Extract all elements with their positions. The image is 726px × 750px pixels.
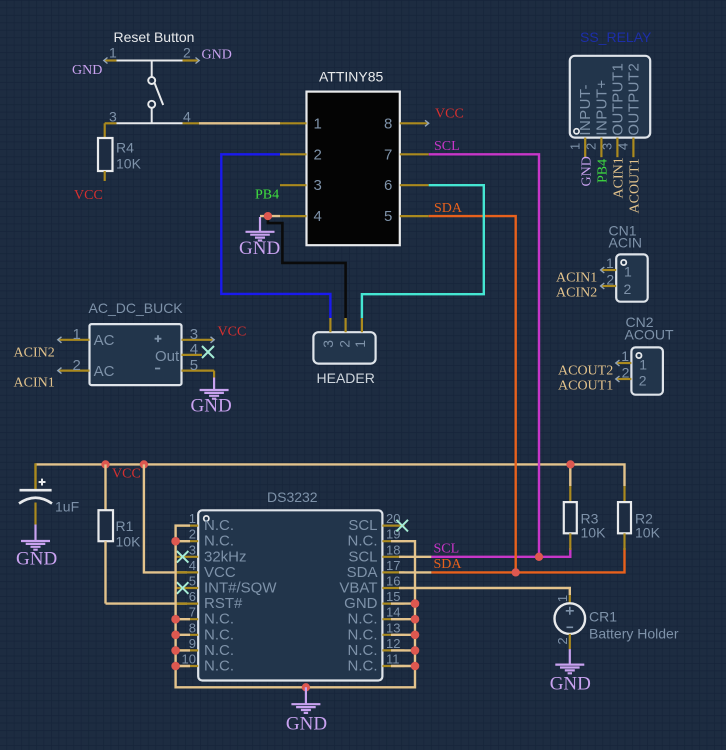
node VCC label on rail bbox=[112, 467, 141, 482]
U2 right pin names bbox=[339, 517, 377, 674]
CN2 pin stubs bbox=[616, 363, 632, 379]
svg-text:SDA: SDA bbox=[434, 201, 463, 216]
svg-text:ACOUT1: ACOUT1 bbox=[558, 379, 613, 394]
svg-text:SCL: SCL bbox=[348, 517, 377, 534]
svg-text:ACIN2: ACIN2 bbox=[14, 346, 55, 361]
junction dots on right bus bbox=[411, 599, 420, 670]
svg-text:16: 16 bbox=[386, 574, 400, 589]
svg-text:DS3232: DS3232 bbox=[267, 489, 318, 505]
wire end arrows bbox=[58, 58, 620, 383]
svg-text:PB4: PB4 bbox=[596, 159, 611, 183]
svg-text:1: 1 bbox=[189, 511, 196, 526]
svg-text:1uF: 1uF bbox=[55, 499, 79, 515]
svg-text:1: 1 bbox=[606, 255, 614, 271]
svg-text:AC: AC bbox=[94, 332, 115, 349]
U3 pin numbers bbox=[73, 326, 199, 374]
svg-text:VBAT: VBAT bbox=[339, 580, 377, 597]
node VCC label at U3 pin 3 bbox=[218, 325, 247, 340]
node SCL label at U2 bbox=[434, 542, 460, 557]
svg-text:GND: GND bbox=[202, 47, 232, 62]
node GND label at SW1 pin 2 bbox=[202, 47, 232, 62]
svg-text:SS_RELAY: SS_RELAY bbox=[580, 29, 652, 45]
ground GND under C1 bbox=[16, 525, 57, 570]
wire U3 pin5 to ground bbox=[213, 371, 215, 378]
junction on rail at R3 bbox=[566, 460, 574, 468]
U2 right pin stubs 11-20 bbox=[382, 526, 404, 666]
junction SDA bbox=[512, 568, 520, 576]
wire U1 pin2 to header pin3 (blue) bbox=[221, 154, 330, 318]
svg-text:1: 1 bbox=[109, 45, 117, 61]
wire SW1 pin4 to U1 pin1 bbox=[199, 122, 280, 124]
svg-text:N.C.: N.C. bbox=[204, 517, 234, 534]
wire VCC rail bbox=[36, 464, 625, 486]
resistor R3 10K bbox=[564, 486, 606, 550]
switch SW1 Reset Button bbox=[104, 29, 199, 124]
no-connect X on U3 pin 4 bbox=[202, 346, 214, 358]
svg-text:1: 1 bbox=[352, 340, 368, 348]
svg-text:2: 2 bbox=[73, 357, 81, 374]
svg-text:AC: AC bbox=[94, 363, 115, 380]
IC U2 DS3232 body bbox=[198, 489, 382, 681]
svg-text:N.C.: N.C. bbox=[348, 658, 378, 675]
node ACIN2 label at CN1 bbox=[556, 286, 597, 301]
resistor R2 10K bbox=[618, 486, 661, 550]
svg-text:R4: R4 bbox=[116, 140, 134, 156]
U1 right pin stubs 5-8 bbox=[400, 123, 429, 216]
svg-text:3: 3 bbox=[189, 542, 196, 557]
svg-text:10K: 10K bbox=[635, 525, 661, 541]
junction on rail at R1 bbox=[101, 460, 109, 468]
svg-text:4: 4 bbox=[183, 108, 191, 124]
svg-text:GND: GND bbox=[239, 238, 280, 259]
junction dots on left bus bbox=[171, 537, 180, 670]
svg-text:VCC: VCC bbox=[74, 188, 103, 203]
svg-text:1: 1 bbox=[555, 595, 570, 602]
svg-text:ACOUT2: ACOUT2 bbox=[558, 364, 613, 379]
svg-text:HEADER: HEADER bbox=[317, 370, 375, 386]
capacitor C1 1uF bbox=[19, 463, 79, 524]
svg-text:1: 1 bbox=[639, 357, 647, 373]
battery holder CR1 bbox=[555, 595, 679, 649]
svg-text:3: 3 bbox=[320, 340, 336, 348]
junction dot bottom bus bbox=[302, 683, 310, 691]
wire VBAT to CR1 bbox=[399, 588, 570, 595]
svg-text:6: 6 bbox=[384, 177, 392, 194]
svg-text:8: 8 bbox=[189, 620, 196, 635]
node PB4 label at U1 pin 3 bbox=[255, 188, 279, 203]
svg-text:VCC: VCC bbox=[435, 107, 464, 122]
svg-text:SDA: SDA bbox=[434, 557, 463, 572]
svg-text:5: 5 bbox=[384, 208, 392, 225]
svg-text:ACIN2: ACIN2 bbox=[556, 286, 597, 301]
K1 pin stubs 1-4 bbox=[585, 138, 633, 158]
svg-text:SCL: SCL bbox=[434, 542, 460, 557]
svg-text:SCL: SCL bbox=[348, 548, 377, 565]
svg-text:2: 2 bbox=[622, 365, 630, 381]
svg-text:10K: 10K bbox=[116, 534, 142, 550]
svg-text:N.C.: N.C. bbox=[348, 642, 378, 659]
svg-text:2: 2 bbox=[336, 340, 352, 348]
svg-text:15: 15 bbox=[386, 589, 400, 604]
U2 left pin numbers bbox=[182, 511, 196, 666]
module U3 AC_DC_BUCK body bbox=[89, 300, 184, 385]
svg-text:GND: GND bbox=[191, 396, 232, 417]
svg-text:8: 8 bbox=[384, 115, 392, 132]
svg-text:17: 17 bbox=[386, 558, 400, 573]
svg-text:ACIN: ACIN bbox=[609, 235, 642, 251]
no-connect X on U2 pin 3 bbox=[177, 551, 189, 563]
svg-text:PB4: PB4 bbox=[255, 188, 279, 203]
U2 right pin numbers bbox=[386, 511, 400, 666]
svg-text:1: 1 bbox=[621, 348, 629, 364]
connector J1 HEADER bbox=[313, 318, 375, 386]
svg-text:14: 14 bbox=[386, 605, 400, 620]
node ACOUT2 label at CN2 bbox=[558, 364, 613, 379]
wire rail to DS3232 pin4 VCC bbox=[144, 464, 187, 572]
svg-text:3: 3 bbox=[109, 108, 117, 124]
svg-text:2: 2 bbox=[624, 281, 632, 297]
svg-text:2: 2 bbox=[189, 527, 196, 542]
no-connect X on U2 pin 5 bbox=[177, 582, 189, 594]
wire net SCL (magenta) bbox=[399, 154, 570, 557]
svg-text:6: 6 bbox=[189, 589, 196, 604]
ground GND below U2 bbox=[286, 687, 327, 734]
svg-text:20: 20 bbox=[386, 511, 400, 526]
svg-text:N.C.: N.C. bbox=[204, 626, 234, 643]
svg-text:AC_DC_BUCK: AC_DC_BUCK bbox=[89, 300, 184, 316]
node ACIN1 label at U3 pin 2 bbox=[14, 376, 55, 391]
svg-text:N.C.: N.C. bbox=[348, 533, 378, 550]
svg-text:9: 9 bbox=[189, 636, 196, 651]
svg-text:N.C.: N.C. bbox=[204, 642, 234, 659]
svg-text:ACIN1: ACIN1 bbox=[556, 271, 597, 286]
node SDA label at U2 bbox=[434, 557, 463, 572]
svg-text:Out: Out bbox=[155, 348, 180, 365]
svg-text:5: 5 bbox=[189, 574, 196, 589]
ground GND under CR1 bbox=[550, 649, 591, 694]
svg-text:GND: GND bbox=[286, 714, 327, 735]
svg-text:2: 2 bbox=[314, 146, 322, 163]
svg-text:10K: 10K bbox=[116, 156, 142, 172]
svg-text:4: 4 bbox=[190, 341, 198, 358]
wire U1 pin6 to header pin1 (cyan) bbox=[362, 185, 484, 318]
wire right N.C. bus bbox=[306, 541, 415, 687]
svg-text:2: 2 bbox=[606, 272, 614, 288]
U2 left pin names bbox=[204, 517, 277, 674]
svg-text:GND: GND bbox=[344, 595, 378, 612]
svg-text:GND: GND bbox=[550, 674, 591, 695]
svg-text:4: 4 bbox=[189, 558, 196, 573]
node ACOUT1 label at CN2 bbox=[558, 379, 613, 394]
svg-text:1: 1 bbox=[568, 143, 583, 150]
resistor R4 10K bbox=[98, 138, 142, 181]
svg-text:ACOUT: ACOUT bbox=[625, 327, 674, 343]
U1 pin numbers bbox=[314, 115, 393, 225]
svg-text:12: 12 bbox=[386, 636, 400, 651]
U3 pin names bbox=[94, 332, 180, 380]
U3 left pin stubs 1-2 bbox=[58, 340, 90, 371]
svg-text:ACIN1: ACIN1 bbox=[612, 157, 627, 198]
svg-text:ACOUT1: ACOUT1 bbox=[628, 158, 643, 213]
svg-text:7: 7 bbox=[384, 146, 392, 163]
CN2 pin numbers bbox=[621, 348, 629, 381]
IC U1 ATTINY85 body bbox=[307, 69, 400, 246]
svg-text:ATTINY85: ATTINY85 bbox=[319, 69, 384, 85]
wire net SDA (orange) bbox=[399, 216, 625, 572]
svg-text:GND: GND bbox=[579, 156, 594, 186]
svg-text:RST#: RST# bbox=[204, 595, 243, 612]
junction SCL bbox=[535, 553, 543, 561]
node ACIN1 label at K1 pin3 rotated bbox=[612, 157, 627, 198]
svg-text:4: 4 bbox=[314, 208, 322, 225]
node VCC label under R4 bbox=[74, 188, 103, 203]
svg-text:INPUT+: INPUT+ bbox=[593, 79, 610, 135]
svg-text:N.C.: N.C. bbox=[204, 611, 234, 628]
wire U1 pin4 to header pin2 (black) bbox=[260, 216, 346, 318]
svg-text:2: 2 bbox=[183, 45, 191, 61]
svg-text:7: 7 bbox=[189, 605, 196, 620]
U1 left pin stubs 1-4 bbox=[280, 123, 307, 216]
svg-text:CR1: CR1 bbox=[589, 609, 617, 625]
CN1 pin numbers bbox=[606, 255, 614, 288]
svg-text:R1: R1 bbox=[116, 518, 134, 534]
wire R1 to DS3232 pin6 RST# bbox=[106, 602, 188, 604]
relay K1 SS_RELAY body bbox=[570, 29, 652, 138]
svg-text:ACIN1: ACIN1 bbox=[14, 376, 55, 391]
svg-text:3: 3 bbox=[314, 177, 322, 194]
node VCC label at U1 pin 8 bbox=[435, 107, 464, 122]
svg-text:VCC: VCC bbox=[218, 325, 247, 340]
svg-text:GND: GND bbox=[16, 549, 57, 570]
wire left N.C. bus bbox=[176, 526, 306, 688]
svg-text:10K: 10K bbox=[581, 525, 607, 541]
svg-text:N.C.: N.C. bbox=[204, 658, 234, 675]
svg-text:GND: GND bbox=[72, 63, 102, 78]
node ACIN2 label at U3 pin 1 bbox=[14, 346, 55, 361]
junction on rail at DS3232 VCC drop bbox=[140, 460, 148, 468]
svg-text:10: 10 bbox=[182, 652, 196, 667]
resistor R1 10K bbox=[99, 464, 142, 603]
ground GND at U1 pin4 bbox=[239, 217, 280, 259]
K1 pin names rotated bbox=[577, 63, 642, 136]
svg-text:1: 1 bbox=[73, 326, 81, 343]
node ACIN1 label at CN1 bbox=[556, 271, 597, 286]
svg-text:2: 2 bbox=[555, 637, 570, 644]
svg-text:SCL: SCL bbox=[434, 139, 460, 154]
svg-text:1: 1 bbox=[314, 115, 322, 132]
connector CN2 ACOUT body bbox=[625, 314, 674, 395]
K1 pin numbers rotated bbox=[568, 143, 631, 150]
svg-text:2: 2 bbox=[639, 372, 647, 388]
svg-text:5: 5 bbox=[190, 357, 198, 374]
svg-text:1: 1 bbox=[624, 264, 632, 280]
svg-text:N.C.: N.C. bbox=[348, 611, 378, 628]
node GND label at K1 pin1 rotated bbox=[579, 156, 594, 186]
CN1 pin stubs bbox=[601, 270, 617, 286]
ground GND at U3 pin5 bbox=[191, 378, 232, 417]
node GND label at SW1 pin 1 bbox=[72, 63, 102, 78]
U3 plus minus marks bbox=[155, 335, 162, 368]
svg-text:32kHz: 32kHz bbox=[204, 548, 247, 565]
U2 left pin stubs 1-10 bbox=[176, 526, 198, 666]
svg-text:Battery Holder: Battery Holder bbox=[589, 626, 679, 642]
node SCL label at U1 pin 7 bbox=[434, 139, 460, 154]
svg-text:N.C.: N.C. bbox=[204, 533, 234, 550]
svg-text:INPUT-: INPUT- bbox=[577, 84, 594, 136]
no-connect X on U2 pin 20 bbox=[396, 520, 408, 532]
svg-text:INT#/SQW: INT#/SQW bbox=[204, 580, 277, 597]
junction at U1 pin4 GND bbox=[264, 212, 272, 220]
svg-text:VCC: VCC bbox=[112, 467, 141, 482]
svg-text:Reset Button: Reset Button bbox=[114, 29, 195, 45]
node ACOUT1 label at K1 pin4 rotated bbox=[628, 158, 643, 213]
svg-text:13: 13 bbox=[386, 620, 400, 635]
wire SW1 pin3 to R4 bbox=[104, 123, 106, 138]
svg-text:18: 18 bbox=[386, 542, 400, 557]
U3 right pin stubs 3-5 bbox=[182, 340, 215, 371]
svg-text:11: 11 bbox=[386, 652, 400, 667]
svg-text:OUTPUT2: OUTPUT2 bbox=[625, 63, 642, 136]
svg-text:VCC: VCC bbox=[204, 564, 236, 581]
node SDA label at U1 pin 5 bbox=[434, 201, 463, 216]
connector CN1 ACIN body bbox=[609, 223, 648, 302]
node PB4 label at K1 pin2 rotated bbox=[596, 159, 611, 183]
svg-text:OUTPUT1: OUTPUT1 bbox=[609, 63, 626, 136]
svg-text:N.C.: N.C. bbox=[348, 626, 378, 643]
svg-text:SDA: SDA bbox=[347, 564, 378, 581]
